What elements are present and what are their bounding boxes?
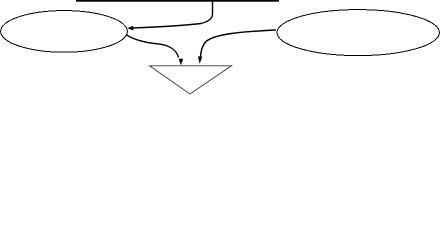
node A: left ellipse [1, 11, 128, 53]
node B: right ellipse [277, 10, 439, 56]
wire: arrow A from top into left ellipse [133, 0, 213, 28]
node C: triangle [150, 66, 232, 94]
arrowhead A [127, 26, 133, 31]
wire: arrow B from left ellipse to triangle [126, 35, 179, 58]
arrowhead C [198, 56, 203, 63]
arrowhead B [179, 59, 184, 65]
wire: arrow C from right ellipse to triangle [201, 30, 277, 57]
wire: top horizontal line (cropped shape bottom) [76, 0, 279, 2]
